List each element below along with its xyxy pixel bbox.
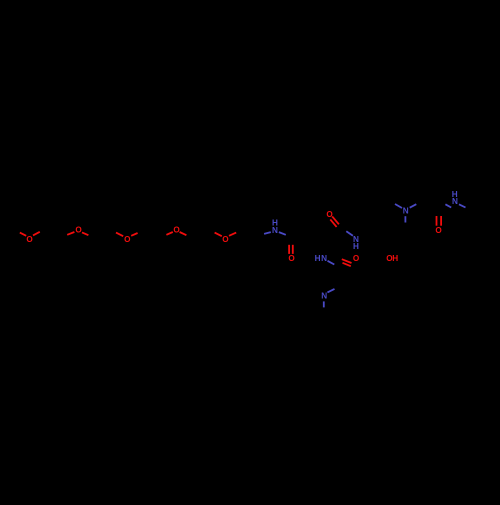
svg-text:O: O [26, 235, 33, 244]
svg-text:N: N [321, 254, 327, 263]
wire N1-CH2 left half-bond [264, 232, 271, 234]
svg-text:H: H [353, 242, 359, 251]
svg-text:H: H [315, 254, 321, 263]
svg-text:O: O [173, 226, 180, 235]
wire N2-C half-bond [346, 231, 353, 235]
C=O 4 double bond halves [436, 216, 438, 226]
wire N6-CH2 right half-bond [459, 204, 466, 207]
svg-text:O: O [288, 254, 295, 263]
wire O4-CH2 right half-bond [180, 232, 187, 235]
wire O5-CH2 right half-bond [229, 233, 236, 236]
wire ring N5 left half-bond [395, 204, 402, 208]
svg-text:N: N [403, 207, 409, 216]
wire O3-CH2 left half-bond [116, 233, 123, 237]
svg-text:O: O [222, 235, 229, 244]
wire O4-CH2 left half-bond [166, 232, 172, 235]
wire ring N5 right half-bond [410, 204, 417, 208]
wire N4-CH half-bond [327, 289, 334, 293]
svg-text:O: O [75, 226, 82, 235]
wire O2-CH2 right half-bond [82, 232, 88, 235]
svg-text:N: N [272, 226, 278, 235]
wire O2-CH2 left half-bond [67, 232, 74, 235]
svg-text:O: O [353, 254, 360, 263]
wire O1-CH2 half-bond [33, 232, 40, 236]
svg-text:N: N [321, 292, 327, 301]
svg-text:O: O [326, 210, 333, 219]
wire HN3-C half-bond [328, 261, 335, 265]
wire O1-CH3 half-bond [20, 233, 26, 236]
wire O3-CH2 right half-bond [131, 233, 137, 236]
C=O 3 double bond halves [342, 259, 352, 263]
svg-text:H: H [392, 254, 398, 263]
capacitor-like C=O 1 double bond halves [288, 245, 290, 254]
wire O5-CH2 left half-bond [215, 233, 222, 237]
svg-text:O: O [124, 235, 131, 244]
wire N1-C(=O) right half-bond [279, 232, 286, 235]
wire N6-C(=O) left half-bond [445, 204, 451, 207]
svg-text:O: O [435, 226, 442, 235]
C=O 2 double bond halves [332, 216, 339, 224]
wire ring N5 down half-bond [404, 216, 406, 222]
svg-text:N: N [452, 197, 458, 206]
wire N4-CH3 half-bond [323, 301, 325, 307]
